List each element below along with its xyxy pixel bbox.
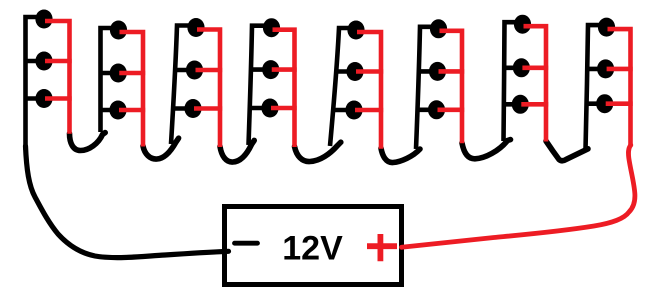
LED D11 (262, 60, 279, 79)
wire W4-5: series link group 4 to group 5 (295, 142, 341, 161)
wire W4a: negative bus of group 4 (top stub + vertical) (249, 26, 272, 145)
wire Wneg: battery negative lead to group 1 (26, 146, 229, 258)
wire W3e: red stub middle lamp group 3 (196, 68, 223, 73)
wire W2c: stub from bus to bottom lamp of group 2 (101, 108, 119, 113)
LED D15 (345, 101, 362, 120)
wire W7d: positive bus of group 7 (top stub + vertical, red) (524, 26, 547, 141)
LED D6 (109, 101, 126, 120)
LED D10 (263, 18, 280, 37)
wire W3-4: series link group 3 to group 4 (220, 140, 254, 162)
wire W2-3: series link group 2 to group 3 (143, 138, 179, 159)
LED D3 (35, 89, 52, 108)
wire W7-8: series link group 7 to group 8 (546, 141, 588, 161)
wire W2b: stub from bus to middle lamp of group 2 (101, 71, 119, 76)
wire W3c: stub from bus to bottom lamp of group 3 (172, 106, 193, 111)
LED D7 (187, 18, 204, 37)
wire W1d: positive bus of group 1 (top stub + vertical, red) (45, 21, 70, 134)
wire W8d: positive bus of group 8 (top stub + vertical, red) (608, 29, 631, 146)
wire W8b: stub from bus to middle lamp of group 8 (587, 67, 606, 72)
wire W6e: red stub middle lamp group 6 (439, 69, 465, 74)
LED D21 (512, 95, 529, 114)
LED D1 (35, 10, 52, 29)
wire W4e: red stub middle lamp group 4 (272, 67, 297, 72)
LED D18 (428, 100, 445, 119)
wire W5-6: series link group 5 to group 6 (381, 148, 420, 162)
LED D20 (513, 58, 530, 77)
wire W1b: stub from bus to middle lamp of group 1 (26, 59, 45, 64)
wire W1c: stub from bus to bottom lamp of group 1 (26, 96, 45, 101)
wire W3d: positive bus of group 3 (top stub + vertical, red) (197, 30, 220, 148)
wire W4b: stub from bus to middle lamp of group 4 (250, 67, 270, 72)
wire W7f: red stub bottom lamp group 7 (521, 102, 548, 107)
LED D19 (514, 15, 531, 34)
wire W5c: stub from bus to bottom lamp of group 5 (332, 108, 354, 113)
LED D14 (346, 62, 363, 81)
wire W1e: red stub middle lamp group 1 (45, 59, 72, 64)
wire W6c: stub from bus to bottom lamp of group 6 (417, 108, 437, 113)
wire W6-7: series link group 6 to group 7 (462, 140, 511, 159)
wire W2f: red stub bottom lamp group 2 (119, 108, 145, 113)
wire W2e: red stub middle lamp group 2 (119, 71, 145, 76)
LED D9 (184, 99, 201, 118)
wire W5d: positive bus of group 5 (top stub + vertical, red) (357, 32, 381, 149)
wire W3b: stub from bus to middle lamp of group 3 (174, 68, 194, 73)
LED D4 (110, 21, 127, 40)
LED D12 (261, 99, 278, 118)
battery negative terminal mark (235, 241, 258, 246)
wire W4d: positive bus of group 4 (top stub + vertical, red) (273, 30, 295, 147)
wire W7c: stub from bus to bottom lamp of group 7 (504, 102, 521, 107)
wire W3f: red stub bottom lamp group 3 (194, 106, 222, 111)
wire W1a: negative bus of group 1 (top stub + vertical) (26, 17, 45, 150)
LED D23 (597, 59, 614, 78)
wire W6f: red stub bottom lamp group 6 (438, 108, 465, 113)
wire W5e: red stub middle lamp group 5 (356, 69, 383, 74)
LED D2 (35, 52, 52, 71)
LED D24 (596, 94, 613, 113)
LED D8 (186, 61, 203, 80)
wire W1f: red stub bottom lamp group 1 (45, 96, 72, 101)
wire W5a: negative bus of group 5 (top stub + vertical) (330, 28, 356, 146)
wire W6a: negative bus of group 6 (top stub + vertical) (416, 27, 439, 149)
LED D13 (347, 21, 364, 40)
wire W2d: positive bus of group 2 (top stub + vertical, red) (120, 32, 144, 147)
wire W6b: stub from bus to middle lamp of group 6 (418, 69, 437, 74)
LED D17 (429, 62, 446, 81)
wire W4f: red stub bottom lamp group 4 (271, 106, 297, 111)
wire W7b: stub from bus to middle lamp of group 7 (504, 66, 521, 71)
LED D22 (598, 18, 615, 37)
battery BT1 12V (outline box) (225, 207, 402, 285)
wire W6d: positive bus of group 6 (top stub + vertical, red) (440, 31, 463, 144)
LED D16 (430, 19, 447, 38)
battery positive terminal mark (red plus) (367, 234, 397, 261)
wire W5b: stub from bus to middle lamp of group 5 (335, 69, 355, 74)
wire W1-2: series link group 1 to group 2 (70, 133, 106, 151)
wire W2a: negative bus of group 2 (top stub + vertical) (101, 28, 119, 132)
wire W7e: red stub middle lamp group 7 (522, 66, 548, 71)
wire W7a: negative bus of group 7 (top stub + vertical) (504, 22, 523, 141)
wire W8a: negative bus of group 8 (top stub + vertical) (586, 25, 607, 149)
wire W8e: red stub middle lamp group 8 (607, 67, 633, 72)
svg-text:12V: 12V (282, 230, 343, 268)
wire W8c: stub from bus to bottom lamp of group 8 (586, 101, 605, 106)
wire W8f: red stub bottom lamp group 8 (606, 101, 633, 106)
LED D5 (110, 64, 127, 83)
wire Wpos: battery positive lead to group 8 (red) (402, 145, 635, 247)
wire W4c: stub from bus to bottom lamp of group 4 (249, 106, 270, 111)
wire W5f: red stub bottom lamp group 5 (355, 108, 383, 113)
wire W3a: negative bus of group 3 (top stub + vertical) (171, 26, 196, 145)
